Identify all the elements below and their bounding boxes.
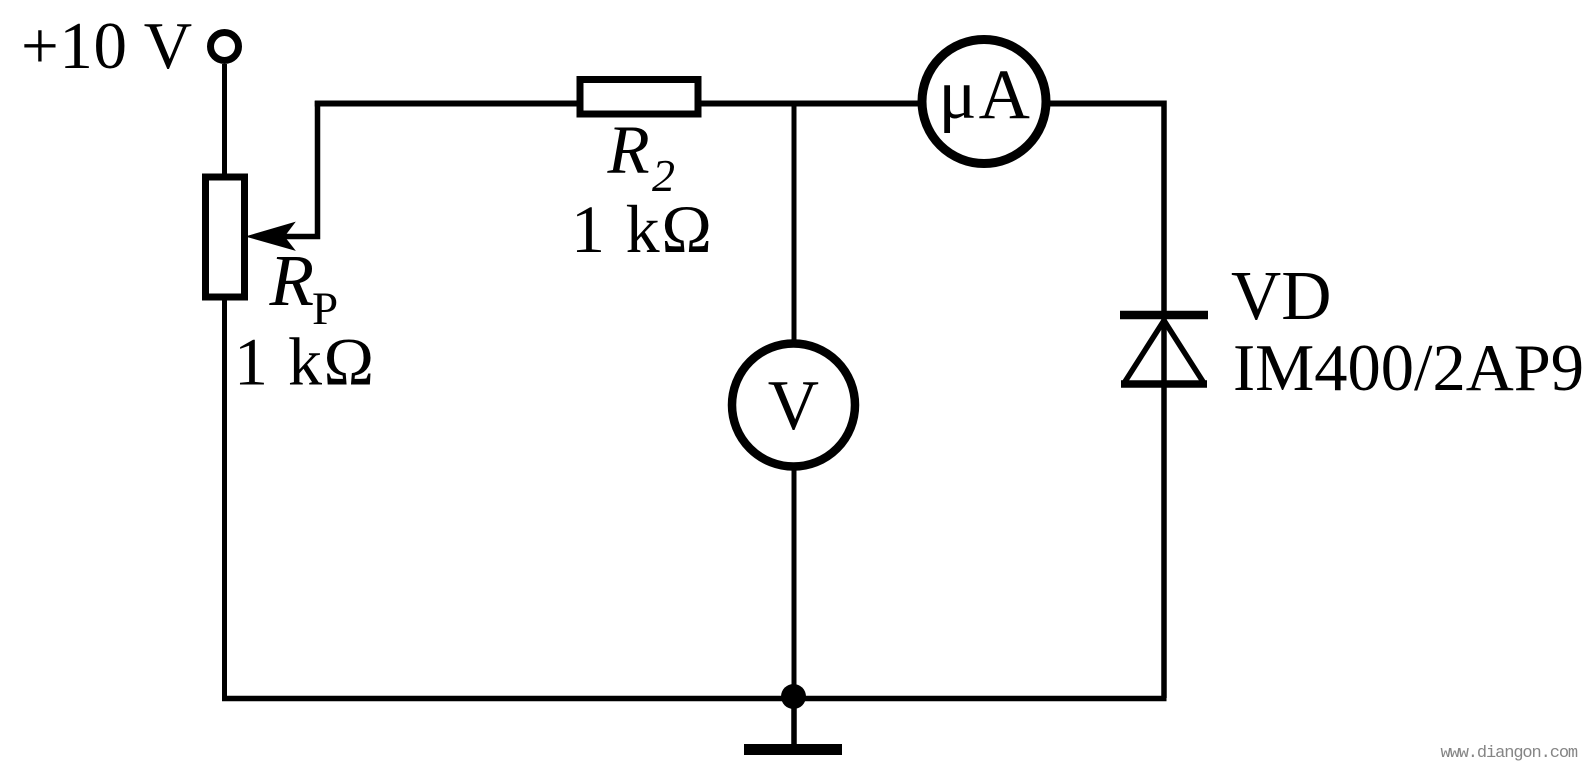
svg-text:www.diangon.com: www.diangon.com <box>1441 744 1578 763</box>
wire wiper to top net <box>284 101 318 237</box>
meter V circle <box>732 344 855 467</box>
ground stub <box>791 698 797 748</box>
diode VD cathode bar <box>1120 311 1208 320</box>
svg-text:1 kΩ: 1 kΩ <box>571 191 714 267</box>
wire terminal to potentiometer top <box>222 64 227 177</box>
wire potentiometer bottom to bottom-left corner <box>222 297 227 698</box>
svg-text:+10 V: +10 V <box>21 9 193 83</box>
potentiometer RP wiper arrow <box>247 223 295 251</box>
wire uA right to corner <box>1045 101 1164 107</box>
wire top net: wiper corner to R2 left <box>315 101 580 107</box>
svg-text:VD: VD <box>1231 258 1331 335</box>
diode VD triangle <box>1124 321 1205 385</box>
wire V branch: top net down to voltmeter <box>792 104 797 346</box>
node +10V terminal <box>211 33 239 61</box>
wire right branch through diode to bottom net <box>1161 101 1167 699</box>
wire bottom net <box>222 696 1167 702</box>
svg-text:IM400/2AP9: IM400/2AP9 <box>1233 332 1582 405</box>
wire voltmeter bottom to ground node <box>792 465 797 698</box>
ground bar <box>744 744 842 755</box>
svg-text:V: V <box>768 367 819 445</box>
svg-text:1 kΩ: 1 kΩ <box>234 324 376 400</box>
svg-text:R: R <box>607 112 650 188</box>
junction dot ground node <box>781 684 806 709</box>
meter uA circle <box>922 40 1046 164</box>
svg-text:μA: μA <box>939 56 1032 134</box>
potentiometer RP body <box>206 177 245 297</box>
wire R2 right to uA meter <box>698 101 925 107</box>
resistor R2 body <box>580 80 698 115</box>
svg-text:R: R <box>269 240 315 321</box>
